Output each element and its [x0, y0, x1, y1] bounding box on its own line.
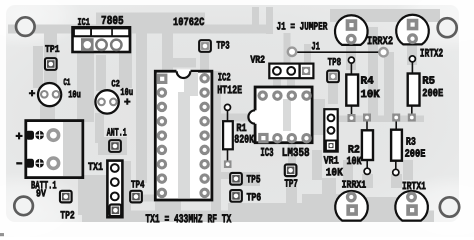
svg-text:C1: C1	[63, 77, 70, 88]
svg-text:IRRX1: IRRX1	[342, 180, 367, 192]
svg-text:TX1 = 433MHZ RF TX: TX1 = 433MHZ RF TX	[145, 212, 232, 226]
svg-text:C2: C2	[111, 78, 120, 89]
svg-text:200E: 200E	[422, 88, 443, 100]
svg-text:+: +	[29, 89, 36, 101]
svg-text:10762C: 10762C	[173, 17, 205, 29]
svg-text:R4: R4	[361, 76, 375, 88]
svg-text:TP5: TP5	[246, 174, 260, 186]
svg-text:TP3: TP3	[216, 40, 229, 52]
svg-text:R2: R2	[348, 145, 360, 157]
svg-text:J1: J1	[311, 41, 320, 53]
svg-text:R5: R5	[422, 76, 435, 88]
svg-text:IRRX2: IRRX2	[367, 35, 393, 48]
svg-text:TP6: TP6	[246, 192, 261, 204]
svg-text:IC1: IC1	[78, 18, 90, 29]
svg-text:TP4: TP4	[131, 179, 145, 191]
svg-text:10K: 10K	[346, 156, 361, 168]
svg-text:+: +	[15, 130, 22, 144]
svg-text:TP7: TP7	[284, 179, 298, 191]
svg-text:VR1: VR1	[324, 156, 340, 168]
svg-text:J1 = JUMPER: J1 = JUMPER	[277, 22, 328, 34]
svg-text:10u: 10u	[68, 90, 81, 101]
svg-text:IC2: IC2	[218, 72, 231, 84]
svg-text:HT12E: HT12E	[217, 84, 242, 97]
svg-text:+: +	[124, 97, 131, 109]
svg-text:TP8: TP8	[328, 57, 342, 69]
svg-text:ANT.1: ANT.1	[107, 128, 127, 140]
svg-text:IRTX2: IRTX2	[420, 47, 443, 60]
svg-text:TP1: TP1	[45, 45, 60, 56]
svg-text:10K: 10K	[326, 167, 343, 179]
svg-text:9V: 9V	[36, 188, 47, 200]
svg-text:200E: 200E	[405, 149, 426, 161]
svg-text:LM358: LM358	[282, 146, 310, 160]
svg-text:7805: 7805	[101, 14, 124, 28]
svg-text:VR2: VR2	[250, 55, 265, 67]
svg-text:IRTX1: IRTX1	[402, 181, 426, 193]
svg-text:TP2: TP2	[60, 210, 75, 222]
svg-text:820K: 820K	[234, 133, 254, 146]
svg-text:10K: 10K	[361, 89, 381, 101]
svg-text:IC3: IC3	[260, 146, 273, 160]
svg-text:R3: R3	[406, 137, 416, 149]
svg-text:TX1: TX1	[88, 162, 103, 174]
